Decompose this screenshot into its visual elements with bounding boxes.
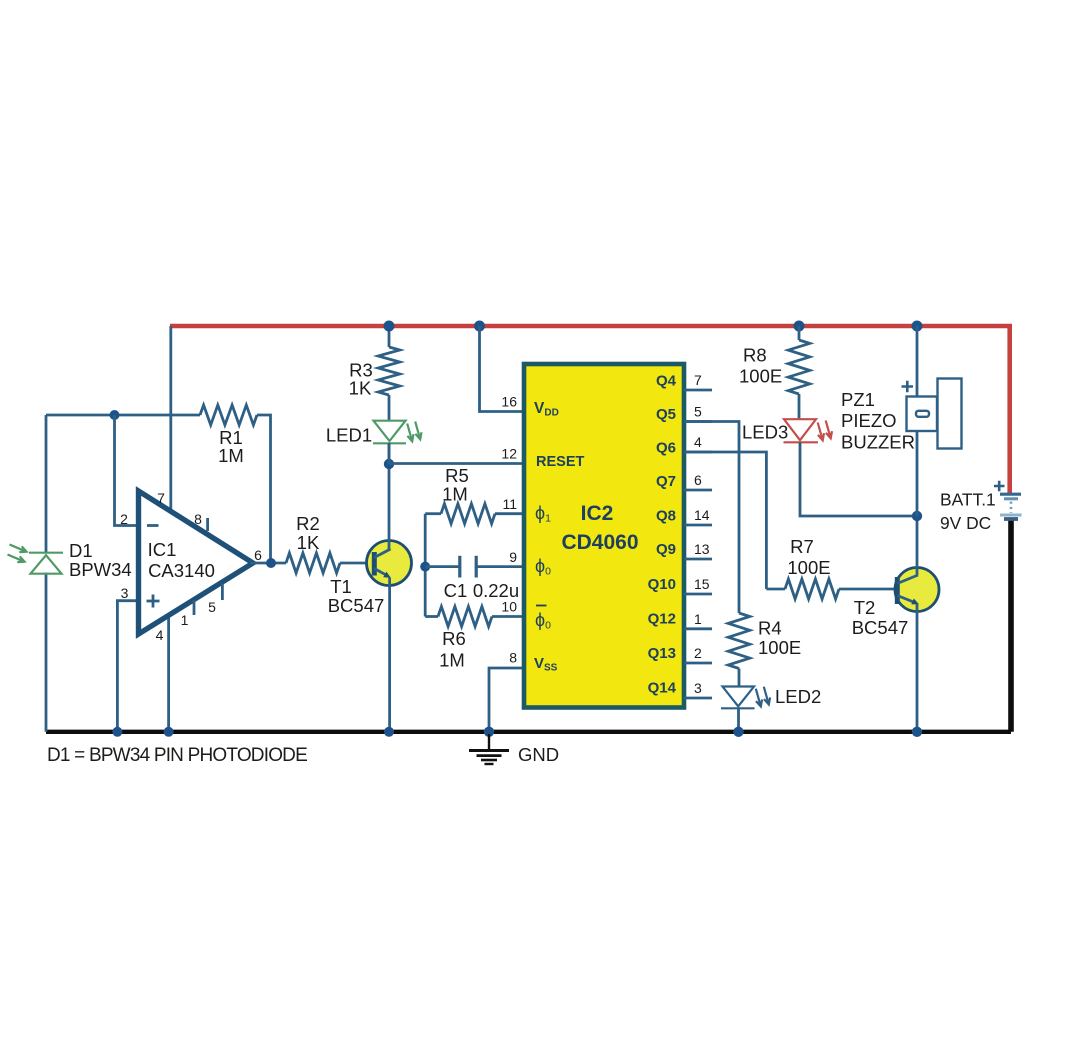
node junction R1/pin2 [110, 410, 120, 420]
svg-text:1M: 1M [439, 650, 465, 671]
node LED2 ground junction [733, 727, 743, 737]
svg-text:BATT.1: BATT.1 [940, 490, 996, 510]
svg-text:T1: T1 [330, 576, 352, 597]
svg-text:R4: R4 [758, 618, 782, 639]
wire positive supply rail (red, top) [170, 326, 1010, 494]
node V+ rail buzzer junction [912, 321, 923, 332]
svg-text:1K: 1K [349, 378, 372, 399]
svg-text:R2: R2 [296, 513, 320, 534]
svg-text:6: 6 [694, 472, 702, 488]
wire R4 to LED2 [738, 669, 741, 687]
svg-text:IC1: IC1 [148, 539, 177, 560]
svg-text:Q13: Q13 [648, 645, 676, 662]
svg-text:7: 7 [157, 490, 165, 506]
svg-text:2: 2 [120, 511, 128, 527]
pin 1 stub (right) [684, 627, 712, 630]
pin 5 stub (right) [684, 420, 712, 423]
svg-text:Q5: Q5 [656, 406, 676, 423]
pin 13 stub (right) [684, 558, 712, 561]
svg-text:IC2: IC2 [581, 502, 614, 525]
svg-text:2: 2 [694, 645, 702, 661]
svg-text:5: 5 [208, 599, 216, 615]
svg-text:1M: 1M [218, 445, 244, 466]
op-amp minus input sign [147, 524, 159, 527]
svg-text:100E: 100E [787, 557, 830, 578]
wire T2 emitter to ground [916, 604, 919, 732]
svg-text:Q14: Q14 [648, 680, 677, 697]
node V+ rail Vdd junction [474, 321, 485, 332]
svg-text:D1 = BPW34 PIN PHOTODIODE: D1 = BPW34 PIN PHOTODIODE [47, 745, 307, 766]
node T1 emitter ground junction [384, 727, 394, 737]
svg-text:7: 7 [694, 372, 702, 388]
wire op-amp output pin 6 [250, 562, 286, 565]
resistor R2 [286, 553, 340, 573]
resistor R7 [766, 588, 785, 591]
pin 3 stub (right) [684, 697, 712, 700]
op-amp plus input sign [147, 595, 160, 608]
transistor Q T2 BC547 [895, 568, 939, 612]
node V+ rail R3 junction [384, 321, 395, 332]
resistor R4 [728, 613, 750, 669]
wire photodiode branch vertical (left) [45, 415, 48, 553]
node op-amp output junction [266, 558, 276, 568]
pin 4 stub (right) [684, 451, 712, 454]
wire LED1 node to IC2 RESET pin 12 [389, 443, 524, 464]
svg-text:12: 12 [501, 446, 517, 462]
wire R2 to T1 base [340, 562, 372, 565]
wire op-amp pin 4 to ground [167, 614, 170, 732]
wire pin 4 Q6 to R7 [684, 452, 766, 589]
svg-text:100E: 100E [739, 366, 782, 387]
wire oscillator left vertical connector [424, 514, 427, 617]
svg-text:Q9: Q9 [656, 541, 676, 558]
svg-text:CA3140: CA3140 [148, 560, 215, 581]
wire V+ rail to IC2 Vdd pin 16 [480, 326, 525, 412]
op-amp U1 IC1 CA3140 triangle [139, 491, 254, 634]
svg-text:10: 10 [501, 599, 517, 615]
wire ground rail (black, bottom) [46, 730, 1011, 734]
svg-text:LED3: LED3 [742, 422, 788, 443]
node pin4 to ground junction [164, 727, 174, 737]
pin 15 stub (right) [684, 593, 712, 596]
piezo buzzer PZ1 [902, 379, 962, 449]
resistor R1 [200, 405, 257, 425]
svg-text:BUZZER: BUZZER [841, 432, 915, 453]
svg-text:R7: R7 [790, 536, 814, 557]
svg-text:13: 13 [694, 541, 710, 557]
svg-text:8: 8 [194, 511, 202, 527]
resistor R3 [378, 347, 400, 395]
svg-text:T2: T2 [854, 597, 876, 618]
capacitor C1 0.22u [425, 556, 524, 578]
wire R1 output to op-amp output node [257, 415, 271, 563]
wire battery negative to ground rail (black) [1008, 520, 1014, 732]
resistor R5 [425, 512, 441, 515]
node pin3 to ground junction [112, 727, 122, 737]
wire R3 to LED1 [388, 395, 391, 421]
svg-text:6: 6 [254, 547, 262, 563]
LED LED1 (green) [373, 421, 422, 444]
wire V+ rail to R3 [388, 326, 391, 347]
node V+ rail R8 junction [794, 321, 805, 332]
svg-text:Q6: Q6 [656, 440, 676, 457]
svg-text:Q4: Q4 [656, 373, 677, 390]
op-amp pin 1 tick [193, 600, 196, 615]
svg-text:GND: GND [518, 744, 559, 765]
node T2 emitter ground junction [912, 727, 922, 737]
svg-text:R6: R6 [442, 628, 466, 649]
wire op-amp pin 2 [115, 415, 141, 526]
wire R5 to pin 11 [495, 512, 524, 515]
wire op-amp pin 7 to V+ rail [169, 326, 172, 510]
wire op-amp pin 3 [117, 601, 140, 732]
wire T2 collector up [916, 516, 919, 575]
svg-text:4: 4 [156, 627, 164, 643]
svg-text:8: 8 [509, 650, 517, 666]
svg-text:100E: 100E [758, 637, 801, 658]
node Vss ground junction [484, 727, 494, 737]
wire R8 to LED3 [798, 394, 801, 419]
wire T1 emitter to ground [388, 578, 391, 732]
wire V+ rail to buzzer [916, 326, 919, 397]
wire T1 collector up to LED1 node [388, 443, 391, 550]
svg-text:9V DC: 9V DC [940, 513, 991, 533]
svg-text:16: 16 [501, 394, 517, 410]
svg-text:RESET: RESET [536, 454, 584, 470]
svg-text:5: 5 [694, 404, 702, 420]
battery BATT.1 9V [994, 481, 1022, 519]
svg-text:3: 3 [121, 585, 129, 601]
pin 14 stub (right) [684, 524, 712, 527]
svg-text:Q10: Q10 [648, 576, 676, 593]
svg-text:Q8: Q8 [656, 508, 676, 525]
svg-text:BC547: BC547 [328, 595, 385, 616]
svg-text:LED2: LED2 [775, 686, 821, 707]
ground symbol GND [469, 734, 509, 764]
svg-text:R8: R8 [743, 345, 767, 366]
op-amp pin 5 tick [221, 584, 224, 601]
svg-text:CD4060: CD4060 [561, 531, 638, 554]
node oscillator C1 junction [420, 562, 430, 572]
svg-text:D1: D1 [69, 540, 93, 561]
LED LED3 (red) [784, 419, 833, 442]
svg-text:4: 4 [694, 434, 702, 450]
svg-text:PIEZO: PIEZO [841, 410, 897, 431]
pin 6 stub (right) [684, 489, 712, 492]
svg-text:BPW34: BPW34 [69, 559, 132, 580]
pin 2 stub (right) [684, 662, 712, 665]
IC U2 IC2 CD4060 body [524, 364, 684, 708]
svg-text:LED1: LED1 [326, 425, 372, 446]
svg-text:C1: C1 [444, 580, 468, 601]
svg-text:3: 3 [694, 680, 702, 696]
svg-text:15: 15 [694, 576, 710, 592]
svg-text:9: 9 [509, 549, 517, 565]
svg-text:PZ1: PZ1 [841, 389, 875, 410]
wire inverting input feedback node horizontal [46, 414, 200, 417]
svg-text:14: 14 [694, 507, 710, 523]
wire pin 5 Q5 to R4 [684, 422, 739, 614]
resistor R8 [788, 340, 810, 394]
resistor R6 [425, 615, 438, 618]
wire buzzer to T2 collector [916, 431, 919, 516]
wire V+ rail to R8 [798, 326, 801, 340]
pin 7 stub (right) [684, 389, 712, 392]
svg-text:Q12: Q12 [648, 611, 676, 628]
LED LED2 [721, 687, 770, 709]
photodiode D1 BPW34 [8, 545, 64, 574]
op-amp pin 8 tick [206, 518, 209, 531]
svg-text:Q7: Q7 [656, 473, 676, 490]
svg-text:11: 11 [502, 496, 517, 512]
svg-text:1M: 1M [442, 484, 468, 505]
wire LED2 cathode to ground [737, 708, 740, 732]
svg-text:1: 1 [694, 611, 702, 627]
wire LED3 cathode to T2 collector node [800, 442, 917, 516]
node LED1 cathode junction [384, 459, 394, 469]
svg-text:1: 1 [181, 612, 189, 628]
wire IC2 Vss pin 8 to ground [489, 668, 524, 732]
svg-text:1K: 1K [297, 532, 320, 553]
node T2 collector junction [912, 511, 922, 521]
transistor Q T1 BC547 [367, 541, 412, 586]
svg-text:BC547: BC547 [852, 617, 909, 638]
